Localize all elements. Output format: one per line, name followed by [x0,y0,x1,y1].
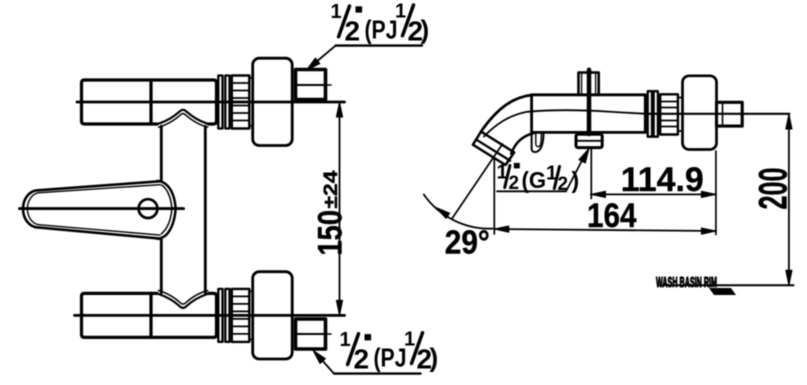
dimension 114.9 left arrow [591,191,606,197]
label top leader [309,46,336,68]
svg-text:): ) [421,15,430,45]
spout inner curve [511,133,535,154]
bottom nut mid line [296,333,326,335]
top knurl ridges [232,83,250,121]
top pipe centerline [77,101,345,104]
bottom knurled union [232,289,250,342]
body underside hook inner [536,132,542,146]
angle 29 slant line [452,144,503,219]
lever screw circle [139,199,158,218]
floor label text [656,275,717,291]
dimension 200 arrow down [786,270,792,285]
label bottom fraction slash 1 [348,334,359,365]
bottom pipe divider [149,293,152,337]
floor hatch blob [709,288,736,295]
label top underline [336,44,422,46]
handle hub arch inner [161,185,172,234]
faucet body [532,95,646,133]
body column left edge [160,126,163,292]
svg-text:200: 200 [752,168,796,210]
top tent inner [159,114,208,128]
label top fraction slash 1 [339,6,350,37]
right union nut inner line [722,102,724,126]
svg-text:2: 2 [345,16,361,47]
dimension 150 arrow down [336,300,342,315]
right ring 1 [648,91,652,137]
top eccentric union nut [296,70,326,100]
svg-text:1: 1 [395,1,406,23]
bottom wall flange [253,272,293,359]
svg-text:29°: 29° [445,224,490,261]
right knurl ridges [660,102,678,127]
label bottom fraction slash 2 [412,333,423,364]
label bottom leader arrowhead [313,350,325,363]
top wall flange [253,58,293,145]
dimension 150±24 line [339,102,341,315]
label top leader arrowhead [307,58,320,70]
handle hub arch outer [158,181,176,239]
dimension 200 line [788,114,790,285]
top tent outer [156,110,211,125]
label bottom leader [316,353,335,374]
svg-text:1: 1 [340,329,351,351]
bottom eccentric union nut [296,319,326,349]
svg-text:1: 1 [404,329,415,351]
bottom tent inner [159,291,208,305]
top nut tick [326,84,332,86]
body column right edge [204,126,207,292]
angle 29 arc [424,195,493,229]
top check-valve ring 1 [218,76,222,129]
lever handle outline [23,181,161,239]
right centerline [645,113,789,115]
bottom knurl ridges [232,296,250,334]
top check-valve ring 2 [225,76,229,129]
svg-text:(PJ: (PJ [374,342,407,372]
label 1/2"(G1/2) [497,161,580,195]
svg-text:150±24: 150±24 [312,170,350,256]
label G leader [566,151,587,191]
bottom nut tick [326,333,332,335]
label G fraction slash 1 [505,166,510,188]
floor reference line [660,284,794,286]
dimension 164 left arrow [494,226,509,232]
dimension 150 arrow up [336,102,342,117]
right wall flange [683,76,717,150]
spout aerator band [473,132,514,165]
svg-text:1: 1 [331,1,342,23]
lever handle inner contour [27,185,160,235]
spout aerator band midline [477,140,510,161]
mounting stud [587,70,592,134]
label G fraction slash 2 [554,167,559,189]
diverter knob [579,73,599,95]
extension line nut plane [590,149,592,199]
angle text 29° [445,224,490,261]
right ring 2 [654,91,658,137]
right union nut [717,102,743,126]
body sweep contour [484,110,645,136]
right collar [678,98,683,132]
lever centerline [20,207,184,210]
dimension 114.9 right arrow [701,191,716,197]
top knurled union [232,76,250,129]
bottom check-valve ring 2 [225,289,229,342]
extension line flange plane [715,151,717,235]
top supply pipe body [82,80,217,124]
label bottom underline [334,372,421,374]
bottom tent outer [156,293,211,308]
top pipe divider [149,80,152,124]
top nut mid line [296,84,326,86]
body underside hook outer [532,132,544,152]
svg-text:114.9: 114.9 [621,161,704,199]
dimension text 150±24 [312,170,350,256]
label G underline [497,190,566,192]
label G leader arrowhead [579,149,589,164]
dimension 164 line [494,229,716,231]
svg-text:2: 2 [354,344,370,375]
bottom check-valve ring 1 [218,289,222,342]
svg-text:(G: (G [522,167,547,193]
extension line spout tip [493,158,495,234]
bottom supply pipe body [82,293,217,337]
dimension 164 right arrow [701,228,716,234]
bottom pipe centerline [75,314,345,317]
dimension text 164 [587,197,637,235]
right knurled union [660,94,678,134]
dimension text 200 [752,168,796,210]
label top 1/2"(PJ1/2) [331,1,430,47]
inlet nut below body [576,134,602,147]
dimension text 114.9 [621,161,704,199]
svg-text:WASH BASIN RIM: WASH BASIN RIM [656,275,717,291]
dimension 114.9 line [591,193,716,195]
svg-text:(PJ: (PJ [365,15,398,45]
label bottom 1/2"(PJ1/2) [340,329,439,375]
svg-text:): ) [430,342,439,372]
svg-text:164: 164 [587,197,637,235]
spout outer curve [481,95,532,132]
diverter knob inner lines [582,73,596,95]
bottom collar [249,291,252,339]
angle 29 arc arrowhead [436,208,450,219]
inlet nut midline [576,140,602,142]
label top fraction slash 2 [403,5,414,36]
dimension 200 arrow up [786,114,792,129]
top collar [249,78,252,126]
